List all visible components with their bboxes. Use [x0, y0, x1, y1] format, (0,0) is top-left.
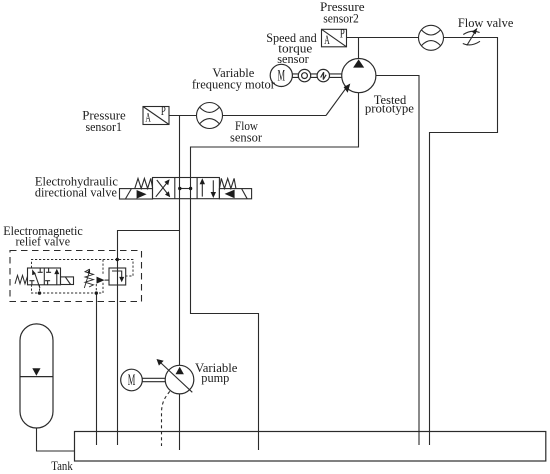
valve left solenoid	[120, 189, 153, 199]
svg-text:P: P	[161, 104, 166, 118]
wire accumulator to tank	[37, 428, 75, 451]
valve centre position blocked ports	[180, 188, 191, 190]
variable frequency motor M	[270, 64, 292, 86]
wire pressure sensor2 top line	[346, 37, 418, 39]
svg-text:sensor: sensor	[230, 130, 263, 145]
valve right position straight arrows	[202, 180, 213, 196]
tested prototype pump circle	[342, 59, 376, 93]
svg-text:sensor1: sensor1	[85, 119, 122, 134]
svg-text:P: P	[340, 27, 345, 41]
wire pump pressure riser (P line)	[179, 116, 181, 366]
wire flow line from pressure sensor1 to corner	[169, 115, 326, 117]
wire prototype top port	[358, 38, 360, 59]
flow sensor circle	[197, 103, 223, 129]
svg-text:M: M	[128, 372, 136, 389]
svg-text:pump: pump	[201, 370, 229, 385]
electrohydraulic directional valve body	[153, 178, 220, 199]
svg-text:Flow valve: Flow valve	[458, 15, 514, 30]
svg-text:prototype: prototype	[365, 101, 414, 116]
svg-text:directional valve: directional valve	[35, 184, 117, 199]
pressure sensor PS1	[143, 107, 169, 125]
svg-text:Tank: Tank	[51, 458, 73, 473]
svg-text:A: A	[145, 110, 151, 125]
relief inner dashed box	[32, 260, 134, 294]
svg-text:sensor2: sensor2	[323, 10, 359, 25]
junction dot pilot line	[116, 258, 119, 261]
prototype variable arrow from flow line	[326, 86, 348, 116]
relief pilot triangle	[97, 277, 105, 284]
junction dot pilot drain left	[38, 291, 41, 294]
pilot valve solenoid	[61, 277, 74, 285]
pressure sensor PS2	[322, 29, 347, 47]
wire prototype outlet right	[376, 76, 419, 446]
shaft between couplings	[311, 74, 317, 78]
relief main valve square	[109, 268, 126, 285]
pump drain dashed	[162, 391, 170, 446]
svg-text:frequency motor: frequency motor	[192, 76, 276, 91]
junction dot pilot drain right	[95, 291, 98, 294]
accumulator	[20, 324, 53, 428]
flow valve (throttle)	[463, 31, 480, 46]
relief adjustable spring	[84, 269, 93, 288]
pilot solenoid valve body	[28, 268, 61, 288]
torque sensor coupling	[298, 69, 310, 81]
svg-text:relief valve: relief valve	[16, 233, 71, 248]
pilot valve spring	[15, 275, 28, 283]
wire flow meter2 to flow valve to return	[430, 38, 498, 446]
shaft motor to torque sensor	[292, 74, 298, 78]
valve left spring	[135, 178, 153, 188]
valve left position crossed arrows	[156, 180, 169, 197]
svg-text:sensor: sensor	[277, 51, 309, 66]
valve right solenoid	[219, 189, 251, 199]
svg-text:A: A	[324, 32, 330, 47]
flow meter top-right circle	[419, 25, 444, 50]
wire relief branch	[118, 231, 180, 446]
wire pump suction to tank	[179, 394, 181, 450]
wire prototype return line	[191, 93, 359, 450]
tank	[75, 432, 546, 462]
variable pump motor M	[121, 369, 143, 391]
pump variable arrow	[160, 362, 193, 393]
svg-text:M: M	[278, 67, 286, 84]
variable pump circle	[165, 365, 194, 394]
speed sensor coupling	[317, 69, 329, 81]
wire relief drain to tank	[96, 293, 98, 445]
pump shaft	[142, 378, 165, 381]
valve right spring	[220, 178, 236, 188]
shaft to tested prototype	[330, 74, 342, 78]
electromagnetic relief valve outer dashed box	[10, 251, 142, 302]
